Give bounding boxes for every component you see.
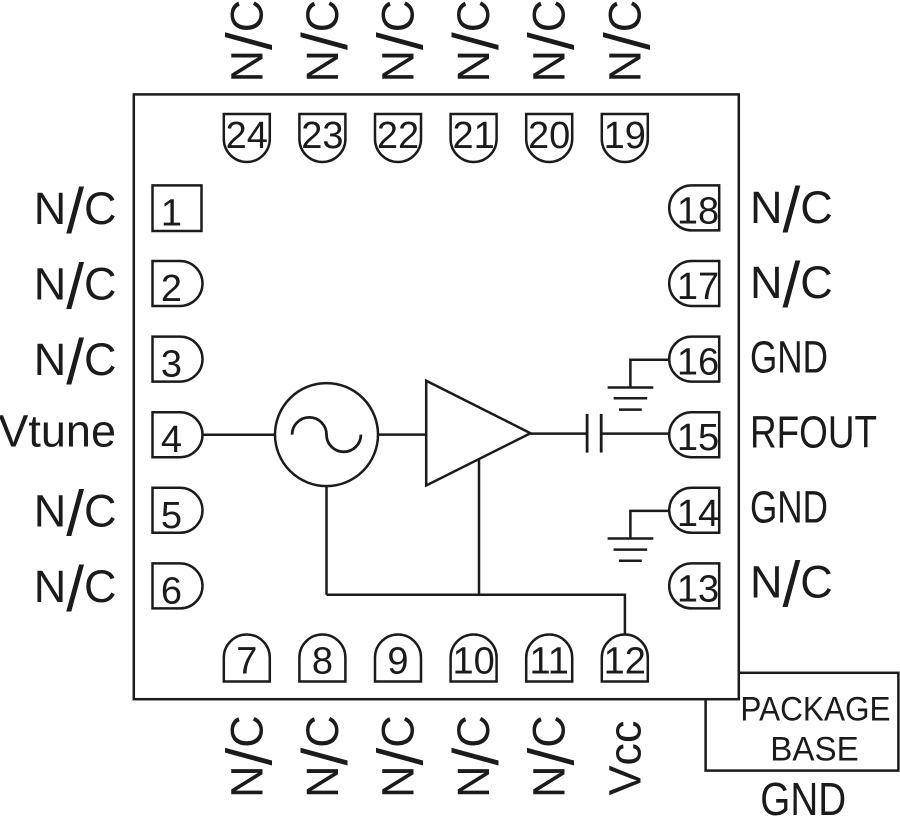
svg-text:4: 4 [161,419,182,461]
wire amplifier to capacitor [531,432,588,435]
package outline [134,94,739,699]
svg-text:N/C: N/C [750,249,833,321]
svg-text:N/C: N/C [289,0,361,83]
svg-text:18: 18 [677,190,719,232]
svg-text:N/C: N/C [213,0,285,83]
svg-text:N/C: N/C [750,548,833,620]
pin 17 [669,261,719,306]
pin 23 [299,114,345,162]
svg-text:9: 9 [387,641,408,683]
capacitor C1 plate right [600,414,603,453]
pin 8 [299,635,345,682]
svg-text:N/C: N/C [213,715,285,798]
svg-text:N/C: N/C [365,715,437,798]
oscillator sine wave [292,417,361,451]
pin 5 [153,488,203,533]
svg-text:10: 10 [452,641,494,683]
svg-text:22: 22 [377,115,419,157]
svg-text:N/C: N/C [289,715,361,798]
pin 24 [224,114,270,162]
svg-text:N/C: N/C [440,0,512,83]
svg-text:24: 24 [226,115,268,157]
svg-text:1: 1 [161,192,182,234]
svg-text:19: 19 [604,115,646,157]
pin 15 [669,412,719,457]
ground symbol at pin16 [608,388,654,410]
svg-text:12: 12 [604,641,646,683]
svg-text:N/C: N/C [440,715,512,798]
svg-text:11: 11 [529,641,568,683]
wire oscillator to Vcc bus [325,486,328,595]
svg-text:BASE: BASE [770,731,858,768]
pin 18 [669,185,719,230]
svg-text:21: 21 [452,115,494,157]
pin 11 [526,635,572,682]
svg-text:5: 5 [161,495,182,537]
pin 19 [602,114,648,162]
pin 1 [153,185,202,231]
wire amplifier to Vcc bus [478,460,481,595]
pin 20 [526,114,572,162]
svg-text:N/C: N/C [516,0,588,83]
svg-text:N/C: N/C [516,715,588,798]
svg-text:15: 15 [677,417,719,459]
svg-text:2: 2 [161,268,182,310]
svg-text:23: 23 [301,115,343,157]
pin 21 [451,114,497,162]
pin 10 [451,635,497,682]
amplifier A1 [426,381,530,486]
svg-text:17: 17 [677,266,719,308]
pin 22 [375,114,421,162]
ground symbol at pin14 [608,539,654,561]
pin 6 [153,563,203,608]
svg-text:Vtune: Vtune [0,406,116,457]
svg-text:N/C: N/C [34,175,117,247]
pin 3 [153,337,203,382]
svg-text:7: 7 [236,641,257,683]
svg-text:N/C: N/C [750,174,833,246]
svg-text:6: 6 [161,570,182,612]
svg-text:Vcc: Vcc [599,720,650,795]
svg-text:14: 14 [677,493,719,535]
pin 16 [669,337,719,382]
pin 2 [153,261,203,306]
wire capacitor to pin 15 [601,432,670,435]
svg-text:N/C: N/C [34,326,117,398]
svg-text:13: 13 [677,568,719,610]
svg-text:GND: GND [760,774,846,818]
svg-text:8: 8 [312,641,333,683]
svg-text:PACKAGE: PACKAGE [740,690,890,728]
svg-text:N/C: N/C [34,477,117,549]
svg-text:GND: GND [750,481,828,532]
package base box [706,673,899,771]
wire pin4 to oscillator [203,433,275,436]
pin 4 [153,412,203,457]
pin 9 [375,635,421,682]
svg-text:N/C: N/C [365,0,437,83]
pin 12 [602,635,648,682]
Vcc bus wire to pin 12 [327,595,625,634]
wire pin14 to ground [630,511,670,539]
pin 14 [669,488,719,533]
capacitor C1 plate left [586,414,589,453]
pin 7 [224,635,270,682]
svg-text:GND: GND [750,331,828,382]
svg-text:3: 3 [161,344,182,386]
wire oscillator to amplifier [378,433,426,436]
pin 13 [669,563,719,608]
oscillator circle U1 [275,383,378,486]
svg-text:16: 16 [677,342,719,384]
svg-text:N/C: N/C [34,553,117,625]
wire pin16 to ground [630,360,670,388]
svg-text:N/C: N/C [591,0,663,83]
svg-text:20: 20 [528,115,570,157]
svg-text:RFOUT: RFOUT [750,407,877,457]
svg-text:N/C: N/C [34,251,117,323]
